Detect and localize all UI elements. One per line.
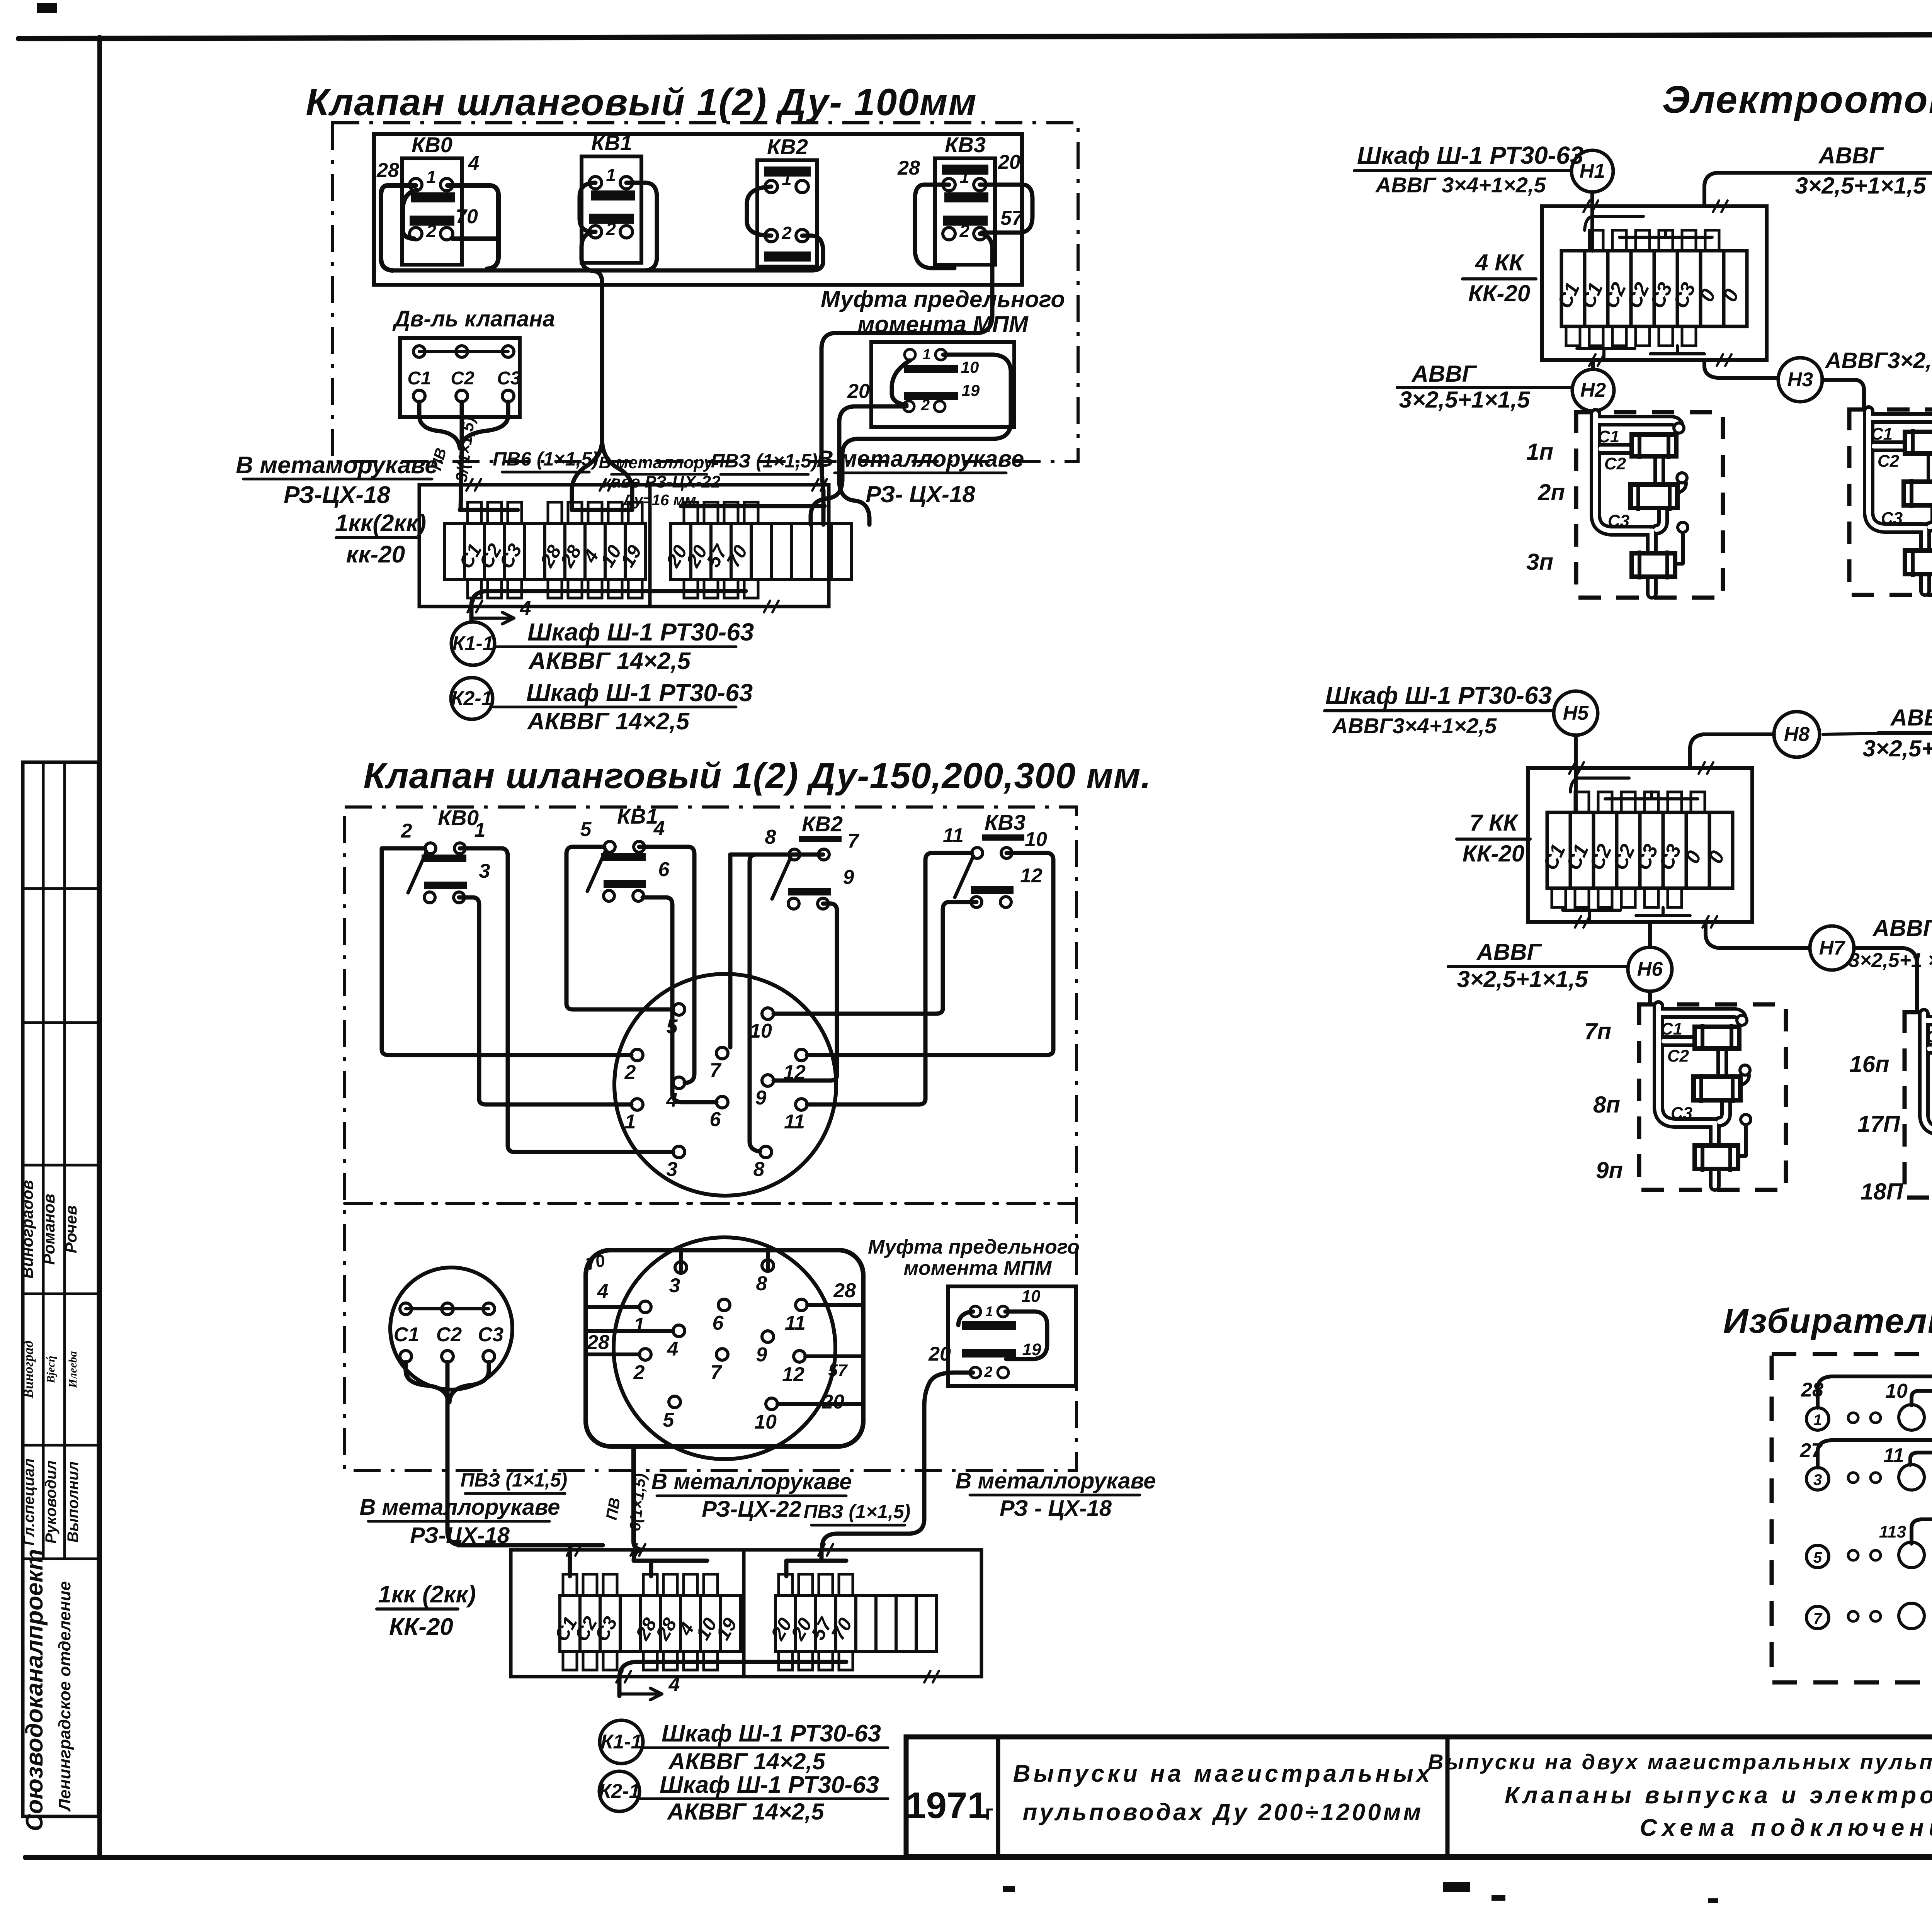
connector2 pin 11 (796, 1299, 807, 1311)
svg-text:АВВГ: АВВГ (1872, 915, 1932, 941)
strip1 lower bus and exit (471, 591, 746, 621)
page frame top border (19, 33, 1932, 39)
svg-text:В металлорукаве: В металлорукаве (956, 1468, 1156, 1493)
svg-text:20: 20 (847, 380, 870, 403)
svg-text:1кк(2кк): 1кк(2кк) (335, 510, 426, 537)
svg-text:10: 10 (1025, 828, 1047, 851)
terminal strip 2 outer box (511, 1550, 981, 1677)
svg-text:АКВВГ 14×2,5: АКВВГ 14×2,5 (528, 648, 691, 675)
svg-text:3п: 3п (1526, 549, 1553, 575)
svg-text:Н5: Н5 (1563, 702, 1589, 724)
terminal strip 1 cells (444, 523, 464, 579)
svg-text:АВВГ: АВВГ (1411, 361, 1478, 387)
svg-text:20: 20 (998, 151, 1020, 173)
svg-text:Вјесή: Вјесή (44, 1356, 57, 1383)
svg-text:С2: С2 (451, 368, 474, 389)
strip1 lower stubs (468, 579, 481, 598)
connector2 pin 2 (639, 1349, 651, 1360)
svg-text:6: 6 (710, 1108, 721, 1131)
terminal strip 1 outer box (419, 485, 829, 607)
H6 wires (1648, 922, 1652, 947)
svg-text:В металлору-: В металлору- (599, 453, 719, 472)
svg-text:РЗ - ЦХ-18: РЗ - ЦХ-18 (1000, 1496, 1112, 1521)
strip2 exit arrow 4 (619, 1688, 662, 1700)
КВ2 movable contact (772, 858, 791, 899)
svg-text:ПВ6 (1×1,5): ПВ6 (1×1,5) (493, 448, 599, 470)
connector2 pin 1 (639, 1301, 651, 1313)
svg-text:1971: 1971 (905, 1785, 988, 1826)
svg-text:КК-20: КК-20 (389, 1614, 453, 1640)
svg-text:17П: 17П (1857, 1111, 1901, 1137)
svg-text:Дв-ль клапана: Дв-ль клапана (392, 306, 555, 331)
title block dividers (996, 1737, 1000, 1857)
svg-text:К1-1: К1-1 (452, 632, 493, 655)
strip2 lower bus and exit (619, 1662, 846, 1696)
svg-text:Шкаф Ш-1 РТ30-63: Шкаф Ш-1 РТ30-63 (660, 1772, 879, 1798)
cable tag K1-1 (451, 622, 495, 665)
svg-text:ПВЗ (1×1,5): ПВЗ (1×1,5) (711, 450, 818, 472)
selector wiring loops (1818, 1376, 1932, 1464)
node H5 (1554, 691, 1598, 735)
svg-text:16п: 16п (1849, 1051, 1889, 1077)
connector1 pin 8 (760, 1146, 772, 1158)
section2 wiring KB0 to connector (382, 848, 631, 1055)
svg-text:8: 8 (756, 1273, 767, 1295)
svg-text:1: 1 (782, 169, 792, 189)
svg-text:8п: 8п (1593, 1092, 1620, 1118)
cable tag K1-1 strip2 (600, 1720, 643, 1764)
limit switch КВ0 box (402, 158, 462, 265)
svg-text:Гл.специал: Гл.специал (20, 1458, 37, 1546)
strip2 upper buses (462, 1545, 603, 1576)
svg-text:Схема подключения.: Схема подключения. (1640, 1815, 1932, 1841)
motor cable bundle (419, 402, 460, 448)
svg-text:8: 8 (753, 1158, 765, 1181)
motor top pins (419, 350, 508, 353)
svg-text:КВ3: КВ3 (945, 133, 986, 157)
svg-text:2: 2 (605, 219, 616, 239)
svg-text:Избиратель управления ЦУ: Избиратель управления ЦУ (1723, 1302, 1932, 1341)
connector circle 2 (614, 1237, 835, 1459)
svg-text:5: 5 (663, 1409, 675, 1431)
node H8 (1774, 712, 1820, 757)
svg-text:В металлорукаве: В металлорукаве (817, 446, 1024, 472)
КВ1 movable contact (587, 850, 606, 891)
svg-text:4 КК: 4 КК (1475, 250, 1525, 275)
H2 wires (1591, 360, 1595, 369)
MPM2 wires (1005, 1312, 1047, 1359)
heater group 7p-9p (1639, 1004, 1786, 1190)
svg-text:7п: 7п (1584, 1018, 1611, 1044)
connector2 pin 10 (766, 1398, 777, 1410)
svg-text:1: 1 (922, 347, 930, 363)
limit switch КВ1 box (582, 156, 641, 263)
MPM coupling 2 box (948, 1286, 1076, 1386)
svg-text:Шкаф Ш-1 РТ30-63: Шкаф Ш-1 РТ30-63 (1325, 681, 1552, 709)
connector2 pin 3 (675, 1262, 687, 1273)
cable tag K2-1 (451, 678, 493, 719)
section1 bottom bus and trunk (392, 268, 811, 273)
strip2 tick marks (567, 1544, 573, 1556)
svg-text:7: 7 (1813, 1610, 1823, 1627)
H1 drop wire (1590, 192, 1594, 251)
svg-text:К2-1: К2-1 (599, 1780, 640, 1803)
selector dashed box (1772, 1354, 1932, 1682)
wire box to H7 (1706, 922, 1810, 948)
MPM coupling box (871, 342, 1014, 427)
svg-text:18П: 18П (1861, 1179, 1904, 1205)
svg-text:АВВГ3×4+1×2,5: АВВГ3×4+1×2,5 (1332, 714, 1497, 738)
terminal box 7 КК cells (1547, 812, 1570, 888)
svg-text:7: 7 (711, 1361, 723, 1384)
strip1 exit arrow 4 (471, 612, 514, 624)
svg-text:Шкаф Ш-1 РТ30-63: Шкаф Ш-1 РТ30-63 (1357, 141, 1583, 169)
svg-text:2: 2 (633, 1361, 645, 1384)
connector2 pin 5 (669, 1396, 680, 1408)
connector1 pin 7 (716, 1047, 728, 1059)
svg-text:КВ2: КВ2 (767, 134, 808, 159)
svg-text:Шкаф Ш-1 РТ30-63: Шкаф Ш-1 РТ30-63 (527, 618, 754, 646)
svg-text:Союзводоканалпроект: Союзводоканалпроект (21, 1549, 48, 1831)
svg-text:3×2,5+1×1,5: 3×2,5+1×1,5 (1863, 736, 1932, 761)
svg-text:ПВЗ (1×1,5): ПВЗ (1×1,5) (461, 1469, 568, 1491)
strip1 upper stubs (468, 502, 481, 523)
svg-text:Н1: Н1 (1580, 160, 1605, 182)
MPM2 contacts (970, 1306, 981, 1317)
svg-text:10: 10 (754, 1411, 777, 1433)
КВ3 movable contact (955, 856, 973, 897)
section2 dash-dot boundary (345, 807, 1077, 1470)
svg-text:КВ1: КВ1 (617, 804, 658, 828)
svg-text:1: 1 (606, 165, 616, 185)
svg-text:3: 3 (479, 860, 490, 882)
H5 drop wire (1574, 735, 1578, 812)
svg-text:В метаморукаве: В метаморукаве (236, 452, 438, 479)
connector2 cable loop (586, 1250, 863, 1446)
terminal box 7 КК bottom stubs (1552, 888, 1566, 907)
svg-text:момента МПМ: момента МПМ (904, 1257, 1052, 1279)
svg-text:АВВГ: АВВГ (1818, 143, 1884, 168)
svg-text:7 КК: 7 КК (1469, 810, 1519, 836)
svg-text:Виноград: Виноград (20, 1341, 36, 1398)
svg-text:Клапан шланговый 1(2) Ду- 100м: Клапан шланговый 1(2) Ду- 100мм (306, 81, 977, 123)
svg-text:АВВГ3×2,5+1×1,5: АВВГ3×2,5+1×1,5 (1825, 348, 1932, 373)
node H7 (1810, 926, 1854, 970)
svg-text:7: 7 (848, 830, 860, 852)
connector1 pin 11 (796, 1099, 807, 1110)
section1 inner box (374, 134, 1022, 285)
svg-text:3×2,5+1 ×1,5: 3×2,5+1 ×1,5 (1849, 949, 1932, 972)
svg-text:9п: 9п (1596, 1157, 1623, 1183)
terminal box 7 КК outer (1528, 768, 1752, 922)
svg-text:Шкаф Ш-1 РТ30-63: Шкаф Ш-1 РТ30-63 (526, 679, 753, 707)
connector2 pin 8 (762, 1260, 774, 1271)
svg-text:3×2,5+1×1,5: 3×2,5+1×1,5 (1457, 966, 1588, 992)
H8 wire right and down to group6 (1878, 733, 1932, 1001)
svg-text:4: 4 (653, 817, 665, 840)
H3 to group2 wire (1822, 380, 1864, 410)
svg-text:Клапан шланговый 1(2) Ду-150,2: Клапан шланговый 1(2) Ду-150,200,300 мм. (363, 755, 1151, 796)
svg-text:2: 2 (426, 221, 436, 241)
svg-text:4: 4 (668, 1674, 680, 1696)
svg-text:Виноградов: Виноградов (18, 1180, 36, 1278)
section2 internal dash-dot divider (345, 1202, 1077, 1205)
svg-text:6: 6 (713, 1312, 724, 1334)
svg-text:РЗ-ЦХ-22: РЗ-ЦХ-22 (702, 1497, 801, 1522)
svg-text:28: 28 (587, 1331, 609, 1354)
connector2 pin 7 (716, 1349, 728, 1360)
svg-text:1: 1 (625, 1111, 636, 1133)
svg-text:1п: 1п (1526, 439, 1553, 465)
terminal strip 2 cells (560, 1595, 580, 1651)
svg-text:Руководил: Руководил (43, 1460, 60, 1543)
section2 wiring KB1 to connector (566, 847, 673, 1009)
selector row 3 contacts (1806, 1545, 1829, 1568)
svg-text:20: 20 (928, 1343, 951, 1365)
KB1 wires (580, 183, 595, 232)
svg-text:10: 10 (1885, 1380, 1908, 1402)
svg-text:С2: С2 (436, 1324, 462, 1346)
strip2 upper stubs (563, 1574, 577, 1595)
svg-text:1: 1 (959, 167, 969, 187)
svg-text:1: 1 (634, 1314, 645, 1336)
KB3 wires (915, 185, 954, 268)
terminal box 4 КК tick marks (1583, 200, 1590, 212)
svg-text:К2-1: К2-1 (451, 687, 492, 710)
svg-text:КВ2: КВ2 (802, 812, 843, 836)
connector1 pin 2 (631, 1049, 643, 1061)
svg-text:3: 3 (1813, 1471, 1822, 1488)
MPM contacts (905, 349, 915, 360)
heater group 13p-15p (1849, 409, 1932, 595)
corner blotch top-left (37, 3, 57, 13)
page frame bottom border (26, 1855, 1932, 1860)
svg-text:1: 1 (426, 167, 436, 187)
cable tag K2-1 strip2 (599, 1771, 639, 1811)
svg-text:28: 28 (897, 157, 920, 179)
svg-text:РЗ- ЦХ-18: РЗ- ЦХ-18 (866, 481, 975, 507)
svg-text:КВ3: КВ3 (985, 810, 1026, 834)
connector2 pin 12 (794, 1351, 805, 1362)
connector2 pin 6 (718, 1299, 730, 1311)
svg-text:11: 11 (785, 1312, 806, 1334)
svg-text:70: 70 (456, 206, 478, 228)
strip2 lower stubs (563, 1651, 577, 1670)
connector1 pin 6 (716, 1096, 728, 1108)
svg-text:В металлорукаве: В металлорукаве (360, 1495, 560, 1520)
svg-text:Шкаф Ш-1 РТ30-63: Шкаф Ш-1 РТ30-63 (662, 1720, 881, 1747)
svg-text:11: 11 (1883, 1444, 1904, 1467)
svg-text:4: 4 (667, 1338, 679, 1360)
svg-text:АВВГ: АВВГ (1890, 705, 1932, 731)
connector1 pin 9 (762, 1075, 774, 1086)
svg-text:1: 1 (474, 819, 486, 841)
svg-text:АКВВГ 14×2,5: АКВВГ 14×2,5 (527, 708, 690, 735)
svg-text:28: 28 (833, 1279, 856, 1302)
svg-text:2: 2 (921, 397, 930, 414)
КВ0 movable contact (408, 851, 427, 893)
connector1 pin 4 (673, 1077, 685, 1089)
valve motor box (400, 338, 520, 417)
KB2 wires (747, 187, 771, 236)
strip1 tick marks (466, 479, 473, 491)
svg-text:12: 12 (1020, 865, 1043, 887)
connector1 pin 3 (673, 1146, 685, 1158)
svg-text:момента МПМ: момента МПМ (857, 311, 1029, 337)
svg-text:АКВВГ 14×2,5: АКВВГ 14×2,5 (668, 1748, 826, 1774)
svg-text:10: 10 (1022, 1287, 1041, 1306)
svg-text:12: 12 (782, 1363, 804, 1386)
strip1 upper buses (460, 508, 518, 512)
КВ1 contacts (591, 190, 635, 200)
svg-text:РЗ-ЦХ-18: РЗ-ЦХ-18 (284, 482, 390, 508)
svg-text:9: 9 (843, 866, 854, 889)
scan smudges bottom (1443, 1882, 1470, 1892)
svg-text:Муфта предельного: Муфта предельного (821, 286, 1065, 312)
svg-text:АКВВГ 14×2,5: АКВВГ 14×2,5 (667, 1799, 825, 1825)
heater group 16p-18p (1905, 1012, 1932, 1198)
valve motor circle section2 (390, 1267, 512, 1390)
svg-text:5: 5 (1813, 1549, 1822, 1566)
svg-text:28: 28 (376, 159, 399, 182)
node H3 (1778, 358, 1822, 402)
connector2 pin stubs to loop (586, 1305, 639, 1309)
svg-text:АВВГ 3×4+1×2,5: АВВГ 3×4+1×2,5 (1375, 173, 1546, 197)
MPM wires (811, 355, 1011, 525)
КВ2 contacts (764, 167, 811, 177)
connector1 pin 12 (796, 1049, 807, 1061)
terminal box 4 КК outer (1542, 206, 1767, 360)
svg-text:9: 9 (756, 1344, 767, 1366)
limit switch КВ2 box (757, 160, 817, 267)
svg-text:Рочев: Рочев (62, 1205, 80, 1253)
svg-text:кк-20: кк-20 (346, 541, 405, 568)
motor bottom pins (413, 390, 425, 402)
svg-text:3×2,5+1×1,5: 3×2,5+1×1,5 (1399, 387, 1531, 413)
svg-text:С3: С3 (497, 368, 521, 389)
section2 wiring KB2 to connector (750, 855, 789, 1151)
svg-text:Н8: Н8 (1784, 723, 1810, 746)
svg-text:1кк (2кк): 1кк (2кк) (378, 1581, 476, 1608)
svg-text:4: 4 (468, 152, 480, 175)
КВ3 contacts (942, 165, 988, 175)
svg-text:3×2,5+1×1,5: 3×2,5+1×1,5 (1795, 173, 1927, 199)
heater group 1p-3p (1576, 412, 1723, 598)
svg-text:КК-20: КК-20 (1463, 841, 1525, 867)
section1 dash-dot boundary (332, 123, 1078, 462)
svg-text:АВВГ: АВВГ (1476, 939, 1543, 965)
svg-text:1: 1 (985, 1303, 993, 1319)
title block outer (906, 1737, 1932, 1857)
svg-text:6: 6 (658, 858, 670, 881)
svg-text:2: 2 (959, 221, 969, 241)
selector row 4 contacts (1806, 1606, 1829, 1629)
svg-text:КК-20: КК-20 (1468, 280, 1531, 306)
svg-text:С3: С3 (478, 1324, 504, 1346)
svg-text:К1-1: К1-1 (600, 1731, 642, 1753)
terminal box 4 КК cells (1561, 251, 1585, 326)
wire box to H3 (1704, 360, 1777, 378)
svg-text:Муфта предельного: Муфта предельного (868, 1236, 1080, 1258)
connector1 pin 1 (631, 1099, 643, 1110)
svg-text:С1: С1 (407, 368, 431, 389)
svg-text:В металлорукаве: В металлорукаве (651, 1469, 852, 1494)
connector circle 1 (614, 974, 836, 1196)
svg-text:Выполнил: Выполнил (65, 1461, 82, 1543)
svg-text:11: 11 (784, 1111, 805, 1133)
node H2 (1572, 369, 1614, 411)
svg-text:2: 2 (984, 1364, 992, 1380)
svg-text:Романов: Романов (40, 1194, 58, 1265)
H7 wire right and down to group5 (1854, 948, 1917, 1012)
terminal box 4 КК top stubs (1589, 230, 1603, 251)
svg-text:С1: С1 (394, 1324, 419, 1346)
svg-text:3: 3 (667, 1158, 678, 1181)
svg-text:9: 9 (755, 1087, 767, 1109)
svg-text:2п: 2п (1537, 479, 1565, 505)
svg-text:2: 2 (781, 223, 792, 243)
svg-text:Клапаны выпуска и электроотопл: Клапаны выпуска и электроотопление. (1505, 1782, 1932, 1809)
terminal box 7 КК tick marks (1569, 762, 1575, 774)
svg-text:10: 10 (750, 1020, 772, 1042)
svg-text:4: 4 (520, 597, 531, 620)
connector2 exit bundle (634, 1446, 641, 1550)
svg-text:10: 10 (961, 358, 979, 376)
svg-text:3: 3 (669, 1274, 680, 1297)
node H6 (1628, 947, 1672, 991)
terminal box 7 КК top stubs (1575, 792, 1589, 812)
svg-text:2: 2 (401, 820, 412, 842)
svg-text:КВ0: КВ0 (412, 133, 452, 157)
wire box to H8 (1690, 734, 1774, 768)
svg-text:ПВЗ (1×1,5): ПВЗ (1×1,5) (804, 1501, 911, 1522)
svg-text:Н7: Н7 (1819, 937, 1846, 959)
svg-text:Н2: Н2 (1580, 379, 1606, 401)
svg-text:Ленинградское отделение: Ленинградское отделение (55, 1581, 74, 1812)
svg-text:19: 19 (962, 381, 980, 399)
motor2 cable bundle (406, 1362, 448, 1402)
svg-text:7: 7 (710, 1059, 722, 1082)
connector2 pin 4 (673, 1325, 685, 1337)
svg-text:Илееba: Илееba (66, 1351, 79, 1388)
terminal box 4 КК bottom stubs (1566, 326, 1580, 346)
svg-text:5: 5 (580, 818, 592, 841)
svg-text:г: г (985, 1801, 994, 1824)
svg-text:Выпуски на двух магистральных: Выпуски на двух магистральных пульповода… (1428, 1750, 1932, 1774)
svg-text:КВ0: КВ0 (438, 805, 479, 830)
svg-text:2: 2 (624, 1061, 636, 1084)
connector2 pin 9 (762, 1331, 774, 1342)
connector1 pin 5 (673, 1004, 685, 1015)
svg-text:Н3: Н3 (1787, 369, 1813, 391)
page frame left border (97, 37, 102, 1857)
svg-text:Выпуски на магистральных: Выпуски на магистральных (1013, 1760, 1433, 1787)
selector row 1 contacts (1806, 1408, 1829, 1430)
limit switch КВ3 box (935, 158, 995, 265)
svg-text:113: 113 (1879, 1522, 1906, 1541)
svg-text:11: 11 (943, 824, 964, 847)
selector row 2 contacts (1806, 1468, 1829, 1490)
connector1 pin 10 (762, 1008, 774, 1019)
svg-text:пульповодах Ду 200÷1200мм: пульповодах Ду 200÷1200мм (1023, 1799, 1423, 1826)
svg-text:1: 1 (1813, 1412, 1822, 1429)
svg-text:Н6: Н6 (1637, 958, 1663, 980)
svg-text:57: 57 (828, 1361, 848, 1380)
side stamp table (23, 762, 99, 1816)
section2 wiring KB3 to connector (807, 853, 972, 1104)
svg-text:8: 8 (765, 826, 776, 848)
svg-text:57: 57 (1000, 207, 1024, 229)
